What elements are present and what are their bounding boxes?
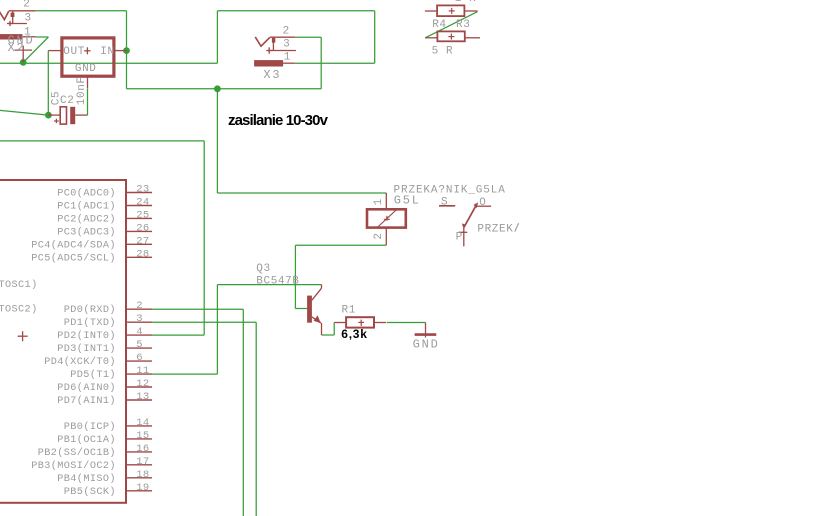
svg-text:PB3(MOSI/OC2): PB3(MOSI/OC2) [31,460,116,472]
svg-text:PC2(ADC2): PC2(ADC2) [57,213,116,225]
svg-text:2: 2 [136,300,143,312]
svg-text:X2: X2 [8,41,26,55]
svg-text:PC1(ADC1): PC1(ADC1) [57,201,116,213]
svg-text:27: 27 [136,235,149,247]
svg-text:10nF: 10nF [76,76,88,105]
svg-text:13: 13 [136,391,149,403]
svg-text:6: 6 [136,352,143,364]
svg-text:5: 5 [136,339,143,351]
svg-text:G5L: G5L [394,194,421,208]
svg-text:3: 3 [25,13,32,25]
svg-text:PD0(RXD): PD0(RXD) [64,304,116,316]
svg-text:R3: R3 [456,19,470,31]
svg-text:2: 2 [283,25,290,37]
svg-text:PD5(T1): PD5(T1) [70,369,116,381]
svg-text:TOSC1): TOSC1) [0,279,38,291]
svg-text:28: 28 [136,248,149,260]
svg-text:PC5(ADC5/SCL): PC5(ADC5/SCL) [31,252,116,264]
svg-text:PD3(INT1): PD3(INT1) [57,343,116,355]
svg-text:X3: X3 [263,68,281,82]
svg-text:16: 16 [136,443,149,455]
svg-text:TOSC2): TOSC2) [0,303,38,315]
svg-text:OUT: OUT [63,46,85,58]
svg-text:zasilanie 10-30v: zasilanie 10-30v [228,112,329,129]
svg-text:PC3(ADC3): PC3(ADC3) [57,226,116,238]
svg-text:R4: R4 [432,19,446,31]
svg-text:Q3: Q3 [256,263,270,275]
svg-text:23: 23 [136,184,149,196]
svg-text:12: 12 [136,378,149,390]
svg-text:PB1(OC1A): PB1(OC1A) [57,434,116,446]
svg-text:P: P [456,232,463,244]
svg-text:PC0(ADC0): PC0(ADC0) [57,188,116,200]
svg-text:BC547B: BC547B [256,275,299,287]
svg-text:26: 26 [136,222,149,234]
svg-text:2: 2 [23,0,30,11]
svg-text:PB5(SCK): PB5(SCK) [64,486,116,498]
svg-text:S: S [441,196,448,208]
svg-text:PRZEK: PRZEK [477,223,513,235]
svg-text:18: 18 [136,469,149,481]
svg-text:PB0(ICP): PB0(ICP) [64,421,116,433]
svg-text:5 R: 5 R [432,45,454,57]
svg-text:2: 2 [373,232,385,239]
svg-text:O: O [479,197,486,209]
svg-text:3: 3 [283,39,290,51]
svg-text:PC4(ADC4/SDA): PC4(ADC4/SDA) [31,239,116,251]
svg-text:25: 25 [136,209,149,221]
svg-text:C2: C2 [60,95,74,107]
svg-text:24: 24 [136,197,149,209]
svg-text:11: 11 [136,365,149,377]
svg-text:PD7(AIN1): PD7(AIN1) [57,395,116,407]
svg-text:1: 1 [284,52,291,64]
svg-text:PB2(SS/OC1B): PB2(SS/OC1B) [38,447,116,459]
svg-text:PD1(TXD): PD1(TXD) [64,317,116,329]
svg-text:IN: IN [100,46,114,58]
svg-text:R1: R1 [342,305,356,317]
svg-text:GND: GND [75,63,97,75]
svg-text:6,3k: 6,3k [341,327,367,341]
svg-text:14: 14 [136,417,149,429]
svg-text:PB4(MISO): PB4(MISO) [57,473,116,485]
svg-text:17: 17 [136,456,149,468]
svg-text:PD6(AIN0): PD6(AIN0) [57,382,116,394]
svg-text:15: 15 [136,430,149,442]
svg-text:19: 19 [136,482,149,494]
svg-text:4: 4 [136,326,143,338]
svg-text:PD2(INT0): PD2(INT0) [57,330,116,342]
svg-text:1 R: 1 R [455,0,477,5]
svg-text:1: 1 [373,198,385,205]
svg-text:PD4(XCK/T0): PD4(XCK/T0) [44,356,116,368]
svg-text:GND: GND [413,337,440,351]
svg-text:3: 3 [136,313,143,325]
